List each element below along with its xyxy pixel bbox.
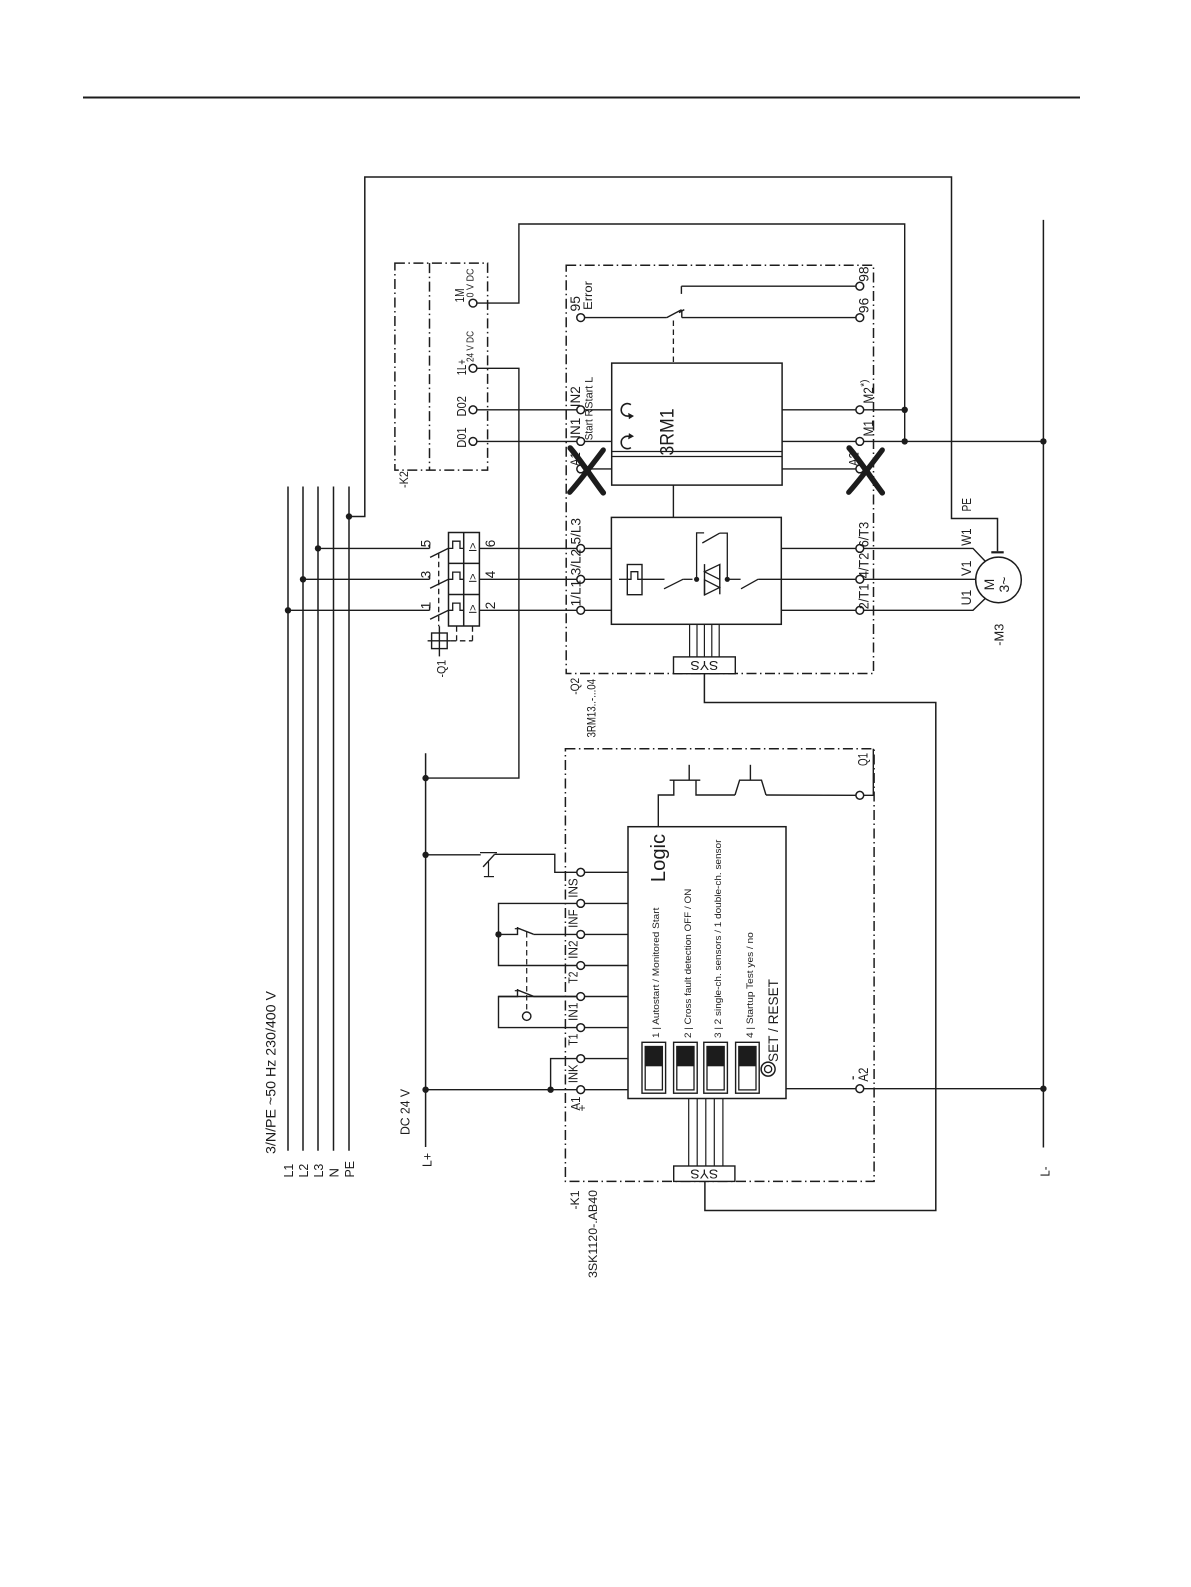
wire L+ to A1 [426,1089,577,1091]
Q1 trip linkage dashed [438,553,440,626]
svg-text:I>: I> [468,573,480,582]
wire to terminal Q1 [766,794,856,796]
svg-text:L3: L3 [311,1164,326,1178]
terminal D02 [469,406,477,414]
svg-text:-M3: -M3 [993,624,1007,646]
svg-text:L+: L+ [420,1153,435,1167]
supply rail PE [348,487,350,1151]
Q1 manual operator symbol [432,633,448,649]
ribbon cable to SYS connector [689,624,691,657]
wire start button to INS [495,854,577,872]
Q1 pole output wire 2 [479,609,576,611]
terminal D01 [469,438,477,446]
svg-text:3SK1120-.AB40: 3SK1120-.AB40 [586,1190,600,1278]
supply rail L2 [302,487,304,1151]
wire 3RM1 to M1 to L- [782,440,856,442]
svg-text:-K2: -K2 [397,471,411,488]
svg-text:3RM1: 3RM1 [658,409,679,456]
estop actuator circle [523,1012,531,1020]
wire IN1 to T1 loop [499,997,577,1028]
svg-text:DC 24 V: DC 24 V [399,1088,413,1135]
svg-text:1: 1 [418,602,433,610]
wire 98 with tick [680,286,682,294]
supply rail N [333,487,335,1151]
svg-text:D02: D02 [455,396,469,417]
svg-text:Start R: Start R [584,409,596,440]
svg-text:M2: M2 [861,387,876,404]
svg-text:4: 4 [483,570,498,578]
L- rail [1042,220,1044,1148]
svg-text:M: M [981,579,997,591]
svg-text:V1: V1 [959,561,974,577]
wire IN2 to logic [585,933,628,935]
svg-text:1 | Autostart / Monitored Star: 1 | Autostart / Monitored Start [651,907,662,1038]
svg-text:PE: PE [342,1161,357,1178]
svg-text:3RM13..-...04: 3RM13..-...04 [584,679,598,738]
terminal IN1 [577,438,585,446]
supply rail L3 [317,487,319,1151]
3RM1 control block [612,363,782,485]
Q1 thermal element pole 2 [449,572,464,579]
node L3 tap [315,545,321,551]
terminal IN2 [577,931,585,939]
svg-text:-K1: -K1 [568,1190,582,1209]
wire IN2 to 3RM1 [585,409,612,411]
svg-text:INK: INK [566,1064,581,1083]
svg-text:2 | Cross fault detection OFF: 2 | Cross fault detection OFF / ON [683,889,694,1038]
svg-text:PE: PE [959,498,974,512]
terminal INF [577,900,585,908]
bypass relay contact [664,579,683,589]
terminal 1M [469,299,477,307]
safety relay -K1 outline [565,749,874,1182]
svg-text:IN1: IN1 [566,1003,581,1022]
svg-text:3/L2: 3/L2 [568,549,583,576]
wire 95 to contact [585,317,667,319]
PLC -K2 internal divider [429,263,431,470]
wire INF to T2 loop [499,903,577,965]
DIP switch 1 [642,1042,666,1093]
svg-text:5: 5 [418,540,433,548]
node L+ A1 branch [422,1087,428,1093]
svg-text:Start L: Start L [584,377,596,409]
triac antiparallel thyristors [704,564,706,595]
terminal INK [577,1055,585,1063]
Q1 thermal element pole 3 [449,603,464,610]
svg-text:4 | Startup Test yes / no: 4 | Startup Test yes / no [745,932,756,1038]
terminal IN1 [577,993,585,1001]
DIP switch 4 [736,1042,760,1093]
svg-text:Error: Error [581,281,595,310]
wire 3RM1 to M2 and junction [782,409,856,411]
wire T1 to logic [585,1027,628,1029]
svg-text:SYS: SYS [690,658,718,673]
svg-text:0 V DC: 0 V DC [466,269,477,298]
SYS connector -Q2 [674,657,736,674]
svg-text:6: 6 [483,540,498,548]
svg-text:3 | 2 single-ch. sensors / 1 d: 3 | 2 single-ch. sensors / 1 double-ch. … [713,840,724,1038]
svg-text:SET / RESET: SET / RESET [766,978,781,1062]
terminal Q1 [856,791,864,799]
rotation arrow right (Start R) [621,436,631,448]
wire D01 to IN1 [477,440,577,442]
estop NC contact channel 1 (IN2) [499,927,518,934]
wire 1L+ to L+ rail [426,368,519,778]
circuit breaker Q1 body [449,533,480,627]
node L1 tap [285,607,291,613]
wire 2/T1 to U1 [864,598,986,610]
logic block outline [628,827,786,1099]
svg-text:INF: INF [566,909,581,928]
wire triac to output contact [727,578,740,580]
estop NC contact channel 2 (IN1) [499,989,518,997]
wire T2 to logic [585,965,628,967]
Q1 pole contact 3 [429,575,431,579]
wire 1M 0V to M1/M2 [477,224,905,441]
wire L1 to Q1 pole 1 [288,609,430,611]
motor PE terminal bar [991,551,1003,553]
terminal 5/L3 [577,545,585,553]
node triac left [694,577,699,582]
Q1 thermal element pole 1 [449,541,464,548]
terminal 2/T1 [856,606,864,614]
svg-text:96: 96 [855,298,871,314]
svg-text:L-: L- [1038,1167,1053,1177]
svg-text:N: N [327,1168,342,1177]
terminal INS [577,868,585,876]
svg-text:IN2: IN2 [567,386,583,407]
svg-text:6/T3: 6/T3 [856,522,871,548]
wire 96 with tick [681,310,683,318]
terminal T2 [577,962,585,970]
wire Q1 up along border [864,749,874,796]
node PE tap [346,513,352,519]
svg-text:L2: L2 [296,1164,311,1178]
Q1 pole contact 5 [429,544,431,548]
node estop branch [495,931,501,937]
svg-text:IN2: IN2 [566,940,581,959]
terminal 4/T2 [856,575,864,583]
wire L2 to Q1 pole 3 [303,578,430,580]
svg-text:INS: INS [566,878,581,898]
terminal A1 [577,1086,585,1094]
bypass branch upper contact [697,533,705,579]
semiconductor output 2 [735,780,766,795]
svg-text:3: 3 [418,571,433,579]
DIP switch 2 [674,1042,698,1093]
terminal 96 [856,314,864,322]
Q1 pole output wire 6 [479,547,576,549]
svg-text:U1: U1 [959,590,974,606]
svg-text:+: + [575,1104,589,1111]
terminal M1 [856,438,864,446]
rotation arrow left (Start L) [621,404,631,416]
terminal 98 [856,282,864,290]
svg-text:4/T2: 4/T2 [856,553,871,579]
SYS connector -K1 [674,1166,735,1181]
supply rail L1 [287,487,289,1151]
node L+ start branch [422,852,428,858]
wire logic to A2 to L- rail [786,1088,856,1090]
svg-text:-Q1: -Q1 [435,660,449,678]
semiconductor output 1 [670,779,701,781]
terminal M2 [856,406,864,414]
wire INF to logic [585,902,628,904]
SET / RESET button [761,1062,775,1076]
wire sensor to contact [642,578,665,580]
svg-text:-Q2: -Q2 [568,678,582,695]
svg-text:3/N/PE ~50 Hz 230/400 V: 3/N/PE ~50 Hz 230/400 V [264,990,279,1154]
logic output to semiconductor outputs [658,780,674,827]
system interface wire SYS to SYS [704,674,935,1211]
L+ rail [425,753,427,1147]
terminal A2 (crossed out) [856,465,864,473]
terminal IN2 [577,406,585,414]
Q1 pole contact 1 [429,606,431,610]
node triac right [725,577,730,582]
svg-text:IN1: IN1 [567,418,583,439]
terminal 3/L2 [577,575,585,583]
wire INS to logic [585,871,628,873]
svg-text:L1: L1 [281,1164,296,1178]
DIP switch 3 [704,1042,728,1093]
contact linkage dashed to 3RM1 [672,321,674,364]
svg-text:T1: T1 [566,1034,581,1046]
svg-text:Logic: Logic [648,834,670,882]
svg-text:I>: I> [468,543,480,552]
estop mechanical link dashed [526,932,528,1012]
svg-text:2: 2 [483,602,498,610]
wire INK branch from A1 line [551,1059,577,1090]
terminal T1 [577,1024,585,1032]
wire 4/T2 to V1 [864,578,976,580]
PLC -K2 outline [395,263,488,470]
svg-text:3~: 3~ [996,577,1012,593]
node A2 to L- [1040,1086,1046,1092]
output side contact [741,579,758,589]
svg-text:SYS: SYS [690,1166,718,1181]
wire 6/T3 to W1 [864,548,986,561]
svg-text:*): *) [859,380,870,387]
svg-text:5/L3: 5/L3 [568,518,583,545]
terminal A2 of -K1 [856,1085,864,1093]
terminal 1L+ [469,364,477,372]
page header rule [83,97,1080,99]
terminal 1/L1 [577,606,585,614]
svg-text:M1: M1 [861,420,876,437]
svg-text:Q1: Q1 [855,753,870,766]
svg-text:24 V DC: 24 V DC [466,331,477,362]
wire IN1 to 3RM1 [585,440,612,442]
svg-text:D01: D01 [455,427,469,448]
changeover contact blade [667,310,682,318]
svg-text:A2: A2 [856,1068,871,1082]
node L+ to 1L+ [422,775,428,781]
terminal A1 (crossed out) [577,465,585,473]
wire IN1 to logic [585,996,628,998]
svg-text:2/T1: 2/T1 [856,584,871,610]
svg-text:I>: I> [468,604,480,613]
terminal 6/T3 [856,545,864,553]
svg-text:T2: T2 [566,972,581,984]
wire 3RM1 to power section [672,485,674,517]
svg-text:98: 98 [855,266,871,282]
wire D02 to IN2 [477,409,577,411]
motor -M3 circle [976,557,1022,603]
wire A1 to logic [585,1089,628,1091]
power switching block [611,517,781,624]
node L2 tap [300,576,306,582]
ribbon cable to SYS connector -K1 [688,1099,690,1167]
wire L3 to Q1 pole 5 [318,547,430,549]
current sensor symbol [627,565,642,595]
terminal 95 [577,314,585,322]
svg-text:W1: W1 [959,528,974,545]
Q1 pole output wire 4 [479,578,576,580]
svg-text:1/L1: 1/L1 [568,580,583,607]
start pushbutton NO contact [426,854,481,856]
wire PE to motor earth [349,177,998,551]
wire INK to logic [585,1058,628,1060]
motor starter -Q2 outline [566,265,873,673]
